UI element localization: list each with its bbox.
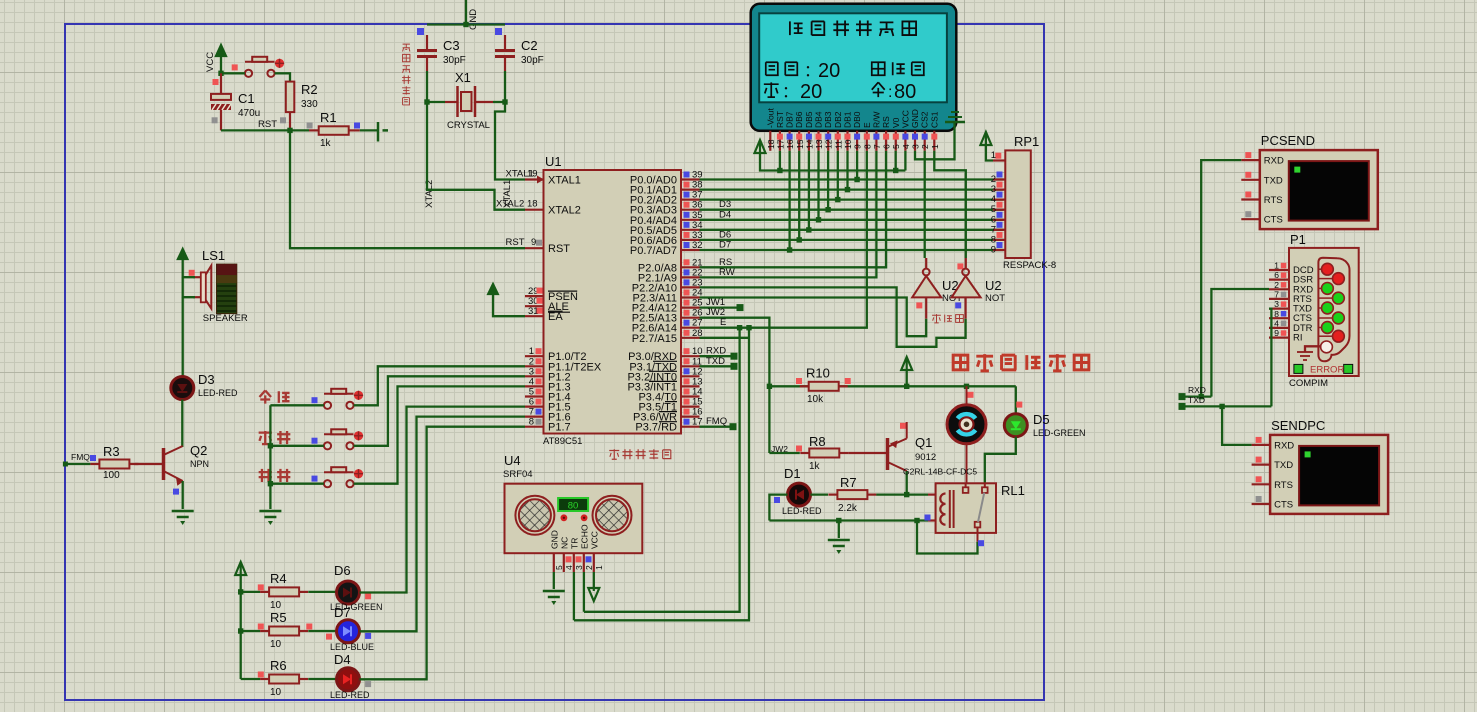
lcd pin 12 DB3: [823, 111, 834, 151]
svg-text:R3: R3: [103, 444, 120, 459]
lcd pin 10 DB1: [843, 111, 854, 151]
wire P2.7 to SRF04 echo: [700, 337, 749, 339]
svg-text:U2: U2: [985, 278, 1002, 293]
svg-text:NPN: NPN: [190, 459, 209, 469]
wire lcd DB2 to bus: [835, 151, 840, 202]
svg-text:CTS: CTS: [1264, 215, 1283, 226]
lcd pin 3 GND: [910, 109, 921, 151]
svg-text:2.2k: 2.2k: [838, 503, 858, 514]
lcd title text: [790, 20, 916, 36]
RP1 pin 3: [991, 182, 1006, 196]
svg-text:LS1: LS1: [202, 248, 225, 263]
red vertical text crystal circuit: [402, 44, 410, 105]
svg-text:X1: X1: [455, 70, 471, 85]
svg-text:DB7: DB7: [785, 111, 795, 128]
svg-text:1k: 1k: [320, 138, 332, 149]
P1 pin 3 TXD: [1269, 299, 1312, 315]
svg-text:AT89C51: AT89C51: [543, 436, 582, 447]
net label XTAL2 vertical: [424, 180, 435, 208]
svg-text:3: 3: [1274, 299, 1279, 309]
svg-text:80: 80: [568, 501, 579, 512]
svg-text:12: 12: [824, 139, 834, 149]
U1 pin 12 P3.2/INT0: [627, 366, 702, 383]
compim db9 connector: [1318, 258, 1349, 362]
wire lcd DB3 to bus: [825, 151, 830, 213]
not gate U2 second: [952, 269, 1006, 319]
P1 pin 2 RXD: [1269, 280, 1313, 296]
U4 pin 3 TR: [569, 538, 584, 572]
svg-text:4: 4: [901, 144, 911, 149]
svg-text:SRF04: SRF04: [503, 469, 533, 480]
svg-text:D1: D1: [784, 466, 801, 481]
wire relay switch return: [917, 521, 984, 554]
lcd line2 text: [766, 60, 925, 82]
lcd pin 17 RST: [775, 111, 786, 151]
wire U4 VCC down arrow: [588, 572, 599, 601]
U1 pin 33 P0.6/AD6: [630, 230, 703, 247]
svg-text:4: 4: [564, 565, 574, 570]
U1 pin 38 P0.1/AD1: [630, 180, 703, 197]
lcd line3 text: [764, 81, 916, 103]
svg-text:9: 9: [1274, 328, 1279, 338]
wire P0.5 bus row: [700, 229, 1004, 231]
svg-text:VCC: VCC: [589, 531, 599, 549]
svg-text:RTS: RTS: [1264, 195, 1283, 206]
not gate U2 first: [912, 269, 962, 319]
svg-text:4: 4: [1274, 318, 1279, 328]
net D6 wire: [700, 229, 1004, 240]
wire RST row: [212, 117, 309, 133]
wire R7 to relay coil: [876, 493, 935, 495]
wire VCC to junction: [218, 57, 223, 76]
wire U4 gnd: [543, 572, 565, 605]
P1 pin 8 CTS: [1269, 309, 1312, 324]
svg-text:-Vout: -Vout: [765, 108, 775, 128]
svg-text:RST: RST: [506, 237, 525, 248]
svg-text:D3: D3: [198, 372, 215, 387]
lcd pin 18 -Vout: [765, 108, 776, 151]
svg-text:R/W: R/W: [871, 111, 881, 128]
lcd module LM12864: [751, 4, 957, 131]
svg-text::: :: [888, 84, 892, 101]
svg-text:RESPACK-8: RESPACK-8: [1003, 260, 1056, 271]
resistor R2: [286, 82, 318, 131]
wire Q1 collector down: [904, 471, 909, 497]
svg-text:20: 20: [800, 81, 822, 103]
U1 pin 26 P2.5/A13: [632, 308, 703, 325]
svg-text:5: 5: [891, 144, 901, 149]
label auto water module: [953, 354, 1089, 371]
svg-text:7: 7: [872, 144, 882, 149]
label button 减键: [259, 469, 291, 482]
wire D4 to P1.7: [360, 427, 526, 680]
svg-text:R1: R1: [320, 110, 337, 125]
capacitor C3: [417, 28, 466, 71]
wire EA to VCC arrow: [488, 284, 525, 316]
relay RL1: [903, 467, 1025, 542]
svg-text:NOT: NOT: [985, 293, 1005, 304]
wire trig vertical: [574, 328, 749, 621]
U4 right transducer: [593, 496, 632, 535]
label button 加键: [259, 431, 291, 444]
U4 pin squares: [566, 556, 592, 562]
wire D7 to P1.6: [360, 417, 526, 632]
wire R8 to Q1 base: [848, 452, 886, 454]
svg-text:RP1: RP1: [1014, 134, 1039, 149]
net RXD wire stub: [700, 346, 738, 360]
wire P0.2 bus row: [700, 198, 1004, 200]
svg-text:TXD: TXD: [1188, 395, 1205, 405]
svg-text:1: 1: [930, 144, 940, 149]
svg-text:9: 9: [853, 144, 863, 149]
svg-text:C1: C1: [238, 91, 255, 106]
ground pump rail: [828, 521, 850, 555]
svg-text:80: 80: [894, 81, 916, 103]
svg-text:Q1: Q1: [915, 435, 932, 450]
label chip select red text: [932, 314, 963, 323]
svg-text:1: 1: [991, 150, 996, 161]
lcd pin 16 DB7: [785, 111, 796, 151]
net RXD right: [1179, 385, 1212, 400]
net E wire: [700, 151, 867, 331]
wire lcd DB4 to bus: [816, 151, 821, 223]
U1 pin EA: [525, 306, 563, 323]
svg-text:13: 13: [814, 139, 824, 149]
power VCC arrow pump: [901, 357, 912, 386]
U1 pin 11 P3.1/TXD: [629, 356, 702, 373]
U1 pin 1 P1.0/T2: [525, 346, 587, 363]
wire lcd DB5 to bus: [806, 151, 811, 233]
net TXD wire stub: [700, 356, 738, 370]
svg-text:SPEAKER: SPEAKER: [203, 313, 248, 324]
compim internal ground: [1297, 346, 1322, 360]
svg-text:LED-GREEN: LED-GREEN: [1033, 428, 1086, 438]
U4 indicator leds: [561, 514, 588, 521]
svg-text:R6: R6: [270, 658, 287, 673]
RP1 pin 7: [991, 222, 1006, 236]
net FMQ wire stub: [700, 416, 737, 430]
svg-text:DB4: DB4: [814, 111, 824, 128]
wire button3 to P1.3: [354, 386, 525, 483]
wire lcd DB7 to bus: [787, 151, 792, 253]
U4 pin 2 ECHO: [579, 524, 594, 572]
wire D1 left down to rail: [769, 495, 787, 521]
RP1 pin 9: [991, 242, 1006, 256]
svg-text:DB2: DB2: [833, 111, 843, 128]
svg-text:D7: D7: [719, 240, 731, 251]
svg-text:9: 9: [531, 237, 536, 248]
RP1 pin 2: [991, 172, 1006, 186]
wire D5 to relay: [985, 437, 1016, 484]
svg-text:RXD: RXD: [1188, 385, 1206, 395]
svg-text:EA: EA: [548, 311, 563, 323]
svg-text:VCC: VCC: [205, 52, 216, 72]
svg-text:NC: NC: [559, 537, 569, 549]
svg-text:2: 2: [920, 144, 930, 149]
svg-text:3: 3: [911, 144, 921, 149]
resistor R4: [241, 571, 308, 611]
P1 pin 7 RTS: [1269, 289, 1312, 305]
svg-text:2: 2: [584, 565, 594, 570]
svg-text:R10: R10: [806, 366, 830, 381]
svg-text:TXD: TXD: [1264, 175, 1283, 186]
svg-text:RST: RST: [258, 119, 277, 130]
U1 pin 34 P0.5/AD5: [630, 220, 703, 237]
svg-text:17: 17: [775, 139, 785, 149]
svg-text:E: E: [862, 122, 872, 128]
U1 pin 21 P2.0/A8: [638, 257, 703, 274]
svg-text:GND: GND: [549, 530, 559, 549]
U1 pin XTAL2: [496, 199, 581, 217]
svg-text:15: 15: [795, 139, 805, 149]
svg-text:D6: D6: [334, 563, 351, 578]
lcd earth symbol: [915, 112, 965, 159]
svg-text:R5: R5: [270, 610, 287, 625]
lcd pin 11 DB2: [833, 111, 844, 151]
svg-text:TXD: TXD: [1274, 460, 1293, 471]
resistor R6: [241, 658, 308, 698]
U4 left transducer: [515, 496, 554, 535]
lcd pin 7 R/W: [871, 111, 882, 150]
reset button: [245, 57, 284, 77]
svg-text:9: 9: [991, 245, 996, 256]
svg-text:470u: 470u: [238, 108, 260, 119]
U4 pin 1 VCC: [589, 531, 604, 572]
net RW wire: [700, 151, 877, 278]
svg-text:6: 6: [882, 144, 892, 149]
push button 1: [312, 389, 364, 409]
wire lcd DB0 to bus: [854, 151, 859, 182]
U4 distance display 80: [558, 498, 588, 512]
wire echo vertical: [584, 328, 740, 612]
lcd pin 6 RS: [881, 116, 892, 151]
svg-text:CRYSTAL: CRYSTAL: [447, 120, 490, 131]
push button 3: [312, 467, 364, 487]
mcu U1 AT89C51 body: [543, 154, 681, 447]
U1 pin 22 P2.1/A9: [638, 267, 703, 284]
svg-text:100: 100: [103, 470, 120, 481]
power VCC arrow reset: [205, 45, 226, 72]
svg-text:XTAL2: XTAL2: [548, 205, 581, 217]
resistor R10: [796, 366, 851, 406]
wire button bus left: [268, 405, 273, 509]
svg-text:PCSEND: PCSEND: [1261, 133, 1315, 148]
U1 pin 25 P2.4/A12: [632, 298, 703, 315]
U4 pin 4 NC: [559, 537, 574, 572]
svg-text:U1: U1: [545, 154, 562, 169]
svg-text:RW: RW: [719, 267, 735, 278]
svg-text:ERROR: ERROR: [1310, 365, 1344, 376]
svg-text:R8: R8: [809, 434, 826, 449]
U1 pin 24 P2.3/A11: [633, 288, 703, 305]
cell symbol: [354, 122, 388, 142]
wire GND stub: [463, 0, 468, 27]
svg-text:9012: 9012: [915, 452, 936, 463]
svg-text:TXD: TXD: [706, 356, 725, 367]
svg-text:R2: R2: [301, 82, 318, 97]
U1 pin 16 P3.6/WR: [633, 407, 703, 424]
wire Q2 emitter to ground: [182, 481, 184, 509]
RP1 pin 4: [991, 192, 1006, 206]
lcd pin 9 DB0: [852, 111, 863, 151]
svg-text:P3.7/RD: P3.7/RD: [635, 422, 677, 434]
wire CS1 column to gate2: [934, 151, 966, 258]
svg-text:XTAL2: XTAL2: [424, 180, 435, 208]
ground Q2: [172, 511, 194, 525]
svg-text:V0: V0: [891, 117, 901, 128]
svg-text:1: 1: [1274, 261, 1279, 271]
svg-text:COMPIM: COMPIM: [1289, 378, 1328, 389]
U1 pin 39 P0.0/AD0: [630, 170, 703, 187]
svg-text:8: 8: [529, 417, 534, 428]
transistor Q2 NPN: [164, 443, 210, 495]
wire D6 to P1.5: [360, 407, 526, 593]
svg-text:5: 5: [554, 565, 564, 570]
capacitor C2: [495, 28, 544, 71]
svg-text:C3: C3: [443, 38, 460, 53]
RP1 pin 6: [991, 212, 1006, 226]
wire lcd DB6 to bus: [797, 151, 802, 243]
U1 pin RST: [506, 237, 571, 255]
svg-text:CS2: CS2: [920, 111, 930, 128]
wire C3 down jog to XTAL2 row: [427, 102, 525, 210]
led D6 LED-GREEN: [308, 563, 382, 612]
svg-text:18: 18: [527, 199, 538, 210]
P1 pin 4 DTR: [1269, 318, 1313, 334]
resistor R8: [769, 434, 848, 472]
svg-text:DB1: DB1: [843, 111, 853, 128]
svg-text:VCC: VCC: [900, 110, 910, 128]
svg-text:XTAL2: XTAL2: [496, 199, 524, 210]
svg-text:DB0: DB0: [852, 111, 862, 128]
svg-text:C2: C2: [521, 38, 538, 53]
svg-text:Q2: Q2: [190, 443, 207, 458]
compim error leds: [1294, 364, 1353, 375]
lcd pin 1 CS1: [929, 111, 940, 151]
net JW1 wire: [700, 297, 744, 311]
U1 pin XTAL1: [506, 169, 581, 187]
led D4 LED-RED: [308, 652, 371, 700]
U1 pin 27 P2.6/A14: [632, 318, 703, 335]
U1 pin 6 P1.5: [525, 397, 571, 414]
svg-text:：: ：: [782, 84, 798, 101]
terminal PCSEND: [1241, 133, 1378, 229]
wire CS2 column to gate1: [925, 151, 927, 269]
svg-text:8: 8: [1274, 309, 1279, 319]
svg-text:U4: U4: [504, 453, 521, 468]
wire compim rxd: [1211, 289, 1269, 397]
sheet border: [65, 24, 1044, 700]
svg-text:16: 16: [785, 139, 795, 149]
U1 pin 37 P0.2/AD2: [630, 190, 703, 207]
label main control circuit: [609, 449, 671, 459]
U1 pin 3 P1.2: [525, 366, 571, 383]
svg-text:10: 10: [270, 687, 282, 698]
wire X1 right to C2: [493, 99, 508, 104]
svg-text:2: 2: [1274, 280, 1279, 290]
svg-text:P1: P1: [1290, 232, 1306, 247]
svg-text:RS: RS: [881, 116, 891, 128]
svg-text:10k: 10k: [807, 394, 824, 405]
svg-text:TR: TR: [569, 538, 579, 549]
net D7 wire: [700, 240, 1004, 251]
svg-text:1k: 1k: [809, 461, 821, 472]
svg-text:18: 18: [766, 139, 776, 149]
wire U4 ECHO: [583, 572, 585, 612]
wire RST down to U1: [290, 130, 525, 248]
U1 pin 32 P0.7/AD7: [630, 240, 703, 257]
svg-text:G2RL-14B-CF-DC5: G2RL-14B-CF-DC5: [903, 467, 977, 477]
svg-text:P0.7/AD7: P0.7/AD7: [630, 245, 677, 257]
svg-text:RST: RST: [775, 111, 785, 128]
svg-text:330: 330: [301, 99, 318, 110]
svg-text:RXD: RXD: [1264, 156, 1284, 167]
U1 pin 15 P3.5/T1: [638, 397, 702, 414]
resistor R7: [811, 475, 877, 514]
U1 pin 2 P1.1/T2EX: [525, 356, 602, 373]
svg-text:LED-RED: LED-RED: [330, 690, 370, 700]
U1 pin 14 P3.4/T0: [638, 387, 702, 404]
svg-text:P2.7/A15: P2.7/A15: [632, 333, 677, 345]
RP1 pin 8: [991, 232, 1006, 246]
speaker LS1: [189, 248, 248, 324]
wire gate2 input path: [700, 287, 966, 346]
wire GND rail to C3 C2: [427, 23, 505, 25]
lcd pin 14 DB5: [804, 111, 815, 151]
crystal X1: [445, 70, 493, 131]
svg-text:RI: RI: [1293, 333, 1303, 344]
net label RST: [258, 119, 277, 130]
wire compim txd: [1269, 309, 1271, 407]
svg-text:SENDPC: SENDPC: [1271, 418, 1325, 433]
power VCC arrow lcd: [755, 140, 906, 173]
svg-text:1: 1: [594, 565, 604, 570]
U4 pin 5 GND: [549, 530, 564, 572]
U1 pin ALE: [525, 296, 570, 313]
led D1 LED-RED: [774, 466, 822, 516]
resistor R1: [307, 110, 360, 149]
wire vcc to speaker and D3: [183, 258, 195, 377]
P1 pin 9 RI: [1269, 328, 1303, 344]
wire button2 to P1.2: [354, 376, 525, 446]
svg-text:GND: GND: [910, 109, 920, 128]
svg-text:XTAL1: XTAL1: [548, 175, 581, 187]
wire P0.0 bus row: [700, 178, 1004, 180]
RP1 pin 5: [991, 202, 1006, 216]
svg-text:14: 14: [804, 139, 814, 149]
sonar U4 SRF04 body: [503, 453, 642, 553]
U1 pin 4 P1.3: [525, 376, 571, 393]
svg-text:30pF: 30pF: [443, 55, 466, 66]
lcd pin 2 CS2: [920, 111, 931, 151]
svg-text:DB6: DB6: [794, 111, 804, 128]
svg-text:LED-BLUE: LED-BLUE: [330, 642, 374, 652]
svg-text:8: 8: [862, 144, 872, 149]
wire relay coil bottom rail: [769, 515, 935, 524]
compim P1 body: [1289, 232, 1359, 389]
capacitor C1 electrolytic: [211, 73, 260, 130]
transistor Q1 9012 PNP: [888, 422, 937, 471]
ground buttons: [259, 511, 281, 525]
wire button rows left: [270, 405, 324, 483]
svg-text:GND: GND: [468, 9, 479, 30]
svg-text:LED-RED: LED-RED: [198, 388, 238, 398]
led D5 LED-GREEN: [1004, 386, 1085, 438]
U1 pin 7 P1.6: [525, 407, 571, 424]
P1 pin 6 DSR: [1269, 270, 1313, 286]
net label JW2 left: [771, 444, 788, 454]
resistor R5: [241, 610, 313, 650]
